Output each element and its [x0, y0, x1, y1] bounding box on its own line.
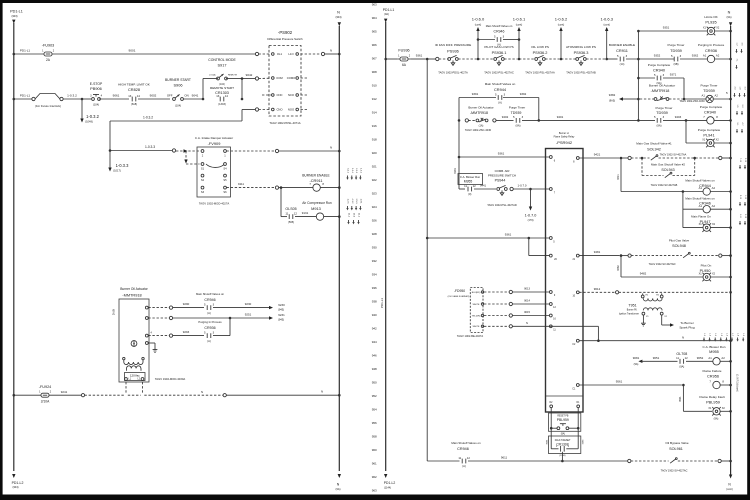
- svg-text:YEL(GR): YEL(GR): [472, 315, 481, 317]
- wire 9061: [99, 98, 129, 100]
- parallel block CR944 over ZSC/TD939: [458, 98, 460, 190]
- pressure switch PS944 comb air: [497, 188, 500, 191]
- svg-text:TD939: TD939: [670, 48, 682, 53]
- svg-text:Pilot Gas Valve: Pilot Gas Valve: [669, 239, 690, 243]
- rung 9361 to pins 5 and 20: [426, 237, 429, 240]
- svg-text:TAGV 1902-ZSC-4030: TAGV 1902-ZSC-4030: [465, 128, 492, 132]
- svg-text:9591: 9591: [679, 396, 682, 402]
- svg-text:(9A): (9A): [561, 432, 566, 435]
- svg-text:X1: X1: [699, 273, 703, 276]
- svg-text:FAULT RESET: FAULT RESET: [555, 439, 571, 442]
- svg-text:Flame Safety Relay: Flame Safety Relay: [554, 136, 576, 139]
- svg-text:14-2: 14-2: [358, 213, 360, 218]
- svg-text:5: 5: [654, 115, 656, 119]
- svg-text:(1-0-7) 16 (cont): (1-0-7) 16 (cont): [736, 374, 739, 391]
- svg-text:-FU903: -FU903: [42, 44, 55, 48]
- svg-text:Purge Timer: Purge Timer: [701, 84, 718, 88]
- wire PS902 CNO to node 1-0.3.2: [255, 108, 258, 111]
- svg-text:4-1.2: 4-1.2: [351, 199, 353, 205]
- svg-text:CR946: CR946: [494, 30, 505, 34]
- svg-text:1-5: 1-5: [736, 105, 738, 109]
- svg-text:-FD950: -FD950: [454, 289, 465, 293]
- svg-text:11: 11: [458, 456, 461, 460]
- svg-text:Main Shutoff Valves on: Main Shutoff Valves on: [485, 82, 516, 86]
- ground from MMTR918: [148, 342, 155, 344]
- svg-text:934: 934: [372, 273, 377, 277]
- node arrow 1-0.6.3: [605, 58, 608, 61]
- svg-text:1-0.3.3: 1-0.3.3: [145, 145, 155, 149]
- svg-text:11: 11: [285, 211, 288, 215]
- svg-text:A1: A1: [702, 94, 706, 98]
- svg-text:TAGV 1902-PSL-4027AC: TAGV 1902-PSL-4027AC: [484, 71, 514, 75]
- svg-text:946: 946: [372, 354, 377, 358]
- coil CR911 burner enable: [313, 184, 320, 191]
- C.A. intake damper actuator FV909: [197, 147, 231, 197]
- reset pushbutton PBL959 block: [549, 413, 581, 431]
- svg-text:3-16: 3-16: [744, 158, 746, 163]
- svg-text:9561: 9561: [616, 380, 623, 384]
- svg-text:TAGV 1902-SV-4027AA: TAGV 1902-SV-4027AA: [660, 153, 687, 156]
- differential pressure switch PS902: [269, 46, 301, 117]
- svg-text:1-0.3.2: 1-0.3.2: [143, 116, 153, 120]
- svg-text:REMOTE: REMOTE: [228, 75, 238, 77]
- svg-text:FU936: FU936: [398, 49, 409, 53]
- svg-text:3: 3: [503, 34, 505, 38]
- svg-text:9231: 9231: [278, 313, 285, 317]
- svg-text:TAGV 1902-BE-4027A: TAGV 1902-BE-4027A: [457, 334, 483, 338]
- svg-text:PL935: PL935: [705, 20, 716, 25]
- svg-text:1-0.6.2: 1-0.6.2: [555, 17, 568, 22]
- contact TD939: [657, 118, 661, 123]
- svg-text:14: 14: [137, 94, 141, 98]
- svg-text:1-0.6.3: 1-0.6.3: [600, 17, 613, 22]
- svg-text:944: 944: [372, 340, 377, 344]
- svg-text:D1: D1: [577, 402, 581, 404]
- svg-text:Burner Oil Actuator: Burner Oil Actuator: [468, 105, 493, 109]
- coil TD939 purge timer: [706, 95, 713, 102]
- svg-text:OIL LOW PS: OIL LOW PS: [531, 45, 549, 49]
- svg-text:X2: X2: [716, 139, 720, 142]
- contact CR828 high temp limit ok: [132, 97, 136, 102]
- svg-text:1-7: 1-7: [731, 333, 733, 337]
- svg-text:7-14: 7-14: [739, 158, 741, 163]
- svg-text:Main Shutoff Valves on: Main Shutoff Valves on: [685, 179, 715, 183]
- svg-text:-PSR942: -PSR942: [556, 140, 573, 145]
- svg-text:COM: COM: [276, 76, 283, 80]
- svg-text:PD1-L1: PD1-L1: [383, 8, 395, 12]
- svg-text:M955: M955: [464, 180, 473, 184]
- svg-text:C1: C1: [572, 387, 576, 390]
- svg-text:954: 954: [372, 408, 377, 412]
- svg-text:1-8: 1-8: [739, 87, 741, 91]
- svg-text:9482: 9482: [617, 265, 620, 271]
- svg-text:1-2: 1-2: [703, 333, 705, 337]
- svg-text:Purge Complete: Purge Complete: [648, 63, 671, 67]
- svg-text:9482: 9482: [640, 272, 647, 276]
- pressure switch PS936.1 pilot gas low: [494, 58, 497, 61]
- svg-text:1-8: 1-8: [737, 333, 739, 337]
- svg-text:918: 918: [372, 138, 377, 142]
- svg-text:PD1-L2: PD1-L2: [12, 481, 24, 485]
- wire 9131: [295, 216, 317, 218]
- svg-text:912: 912: [372, 97, 377, 101]
- svg-text:N: N: [526, 321, 528, 325]
- svg-text:11: 11: [464, 184, 467, 188]
- rung coil CR946 main shutoff valves on: [682, 192, 684, 228]
- svg-text:1-0.7.0: 1-0.7.0: [525, 214, 537, 218]
- svg-text:(9A): (9A): [516, 124, 521, 128]
- svg-text:9251: 9251: [245, 312, 252, 316]
- svg-text:2-4: 2-4: [734, 87, 736, 91]
- fuse FU936: [397, 58, 411, 60]
- svg-text:SOL961: SOL961: [669, 447, 683, 451]
- svg-text:Pilot On: Pilot On: [701, 263, 712, 267]
- svg-text:924: 924: [372, 205, 377, 209]
- svg-text:3: 3: [663, 73, 665, 77]
- svg-text:(179): (179): [528, 219, 534, 222]
- svg-text:8: 8: [573, 160, 575, 163]
- svg-text:(A): (A): [498, 101, 502, 105]
- svg-text:5-12: 5-12: [739, 195, 741, 200]
- lamp PL935 limits ok: [707, 27, 714, 34]
- svg-text:7: 7: [703, 115, 705, 119]
- svg-text:1-0.6.1: 1-0.6.1: [513, 17, 526, 22]
- svg-text:(cont): (cont): [558, 23, 565, 26]
- svg-text:(903): (903): [11, 14, 17, 18]
- svg-text:1: 1: [398, 54, 400, 57]
- svg-text:Main Gas Shutoff Valve #1: Main Gas Shutoff Valve #1: [636, 141, 672, 145]
- svg-text:1-6.2: 1-6.2: [359, 168, 361, 174]
- svg-text:OFF: OFF: [167, 94, 173, 98]
- pushbutton PB906 E-STOP: [92, 98, 95, 101]
- svg-text:Oil Bypass Valve: Oil Bypass Valve: [665, 441, 689, 445]
- svg-text:905: 905: [372, 30, 377, 34]
- burner oil actuator MMTR918: [119, 299, 149, 382]
- svg-text:920: 920: [372, 151, 377, 155]
- contact CR946: [462, 459, 466, 464]
- wire 9041: [184, 98, 204, 100]
- svg-text:Main Gas Shutoff Valve #2: Main Gas Shutoff Valve #2: [651, 162, 685, 166]
- svg-text:1-2.6: 1-2.6: [347, 199, 349, 205]
- svg-text:-CR911: -CR911: [309, 178, 322, 183]
- svg-text:M913: M913: [311, 206, 321, 211]
- svg-text:922: 922: [372, 178, 377, 182]
- svg-text:A1: A1: [708, 356, 712, 360]
- svg-text:TD939: TD939: [511, 111, 522, 115]
- svg-text:CR956: CR956: [707, 374, 719, 379]
- svg-text:12: 12: [553, 306, 556, 309]
- wire from PS902 L1O to N: [301, 53, 322, 55]
- svg-text:928: 928: [372, 232, 377, 236]
- coil M955: [713, 358, 720, 365]
- wire 9361 to PSR942 pin6: [458, 156, 461, 159]
- svg-text:2-5.3: 2-5.3: [355, 199, 357, 205]
- svg-text:(A): (A): [462, 464, 466, 468]
- svg-text:Flame Relay Fault: Flame Relay Fault: [699, 395, 724, 399]
- svg-text:CR946: CR946: [699, 202, 711, 206]
- svg-text:1-5: 1-5: [720, 333, 722, 337]
- wire 9293 contact CR936 purging in process: [148, 335, 169, 337]
- svg-text:9041: 9041: [192, 94, 199, 98]
- rung 9481 solenoid SOL948 pilot gas valve: [579, 255, 619, 257]
- svg-text:926: 926: [372, 219, 377, 223]
- svg-text:(1303): (1303): [218, 102, 226, 106]
- svg-text:1-9: 1-9: [742, 333, 744, 337]
- contact M955: [468, 187, 472, 192]
- svg-text:5: 5: [494, 34, 496, 38]
- svg-text:11: 11: [553, 329, 556, 332]
- node arrow 1-0.6.0: [477, 58, 480, 61]
- svg-text:TAGV 1902-PSL-4027AD: TAGV 1902-PSL-4027AD: [487, 203, 517, 207]
- svg-text:932: 932: [372, 259, 377, 263]
- svg-text:9421: 9421: [617, 174, 620, 180]
- svg-text:L1O: L1O: [288, 52, 293, 56]
- svg-text:9362: 9362: [692, 54, 699, 58]
- svg-text:(9B): (9B): [674, 62, 679, 66]
- svg-text:(9A): (9A): [336, 487, 341, 491]
- svg-text:9361: 9361: [416, 54, 423, 58]
- svg-text:(618): (618): [131, 102, 137, 106]
- svg-text:OLS05: OLS05: [285, 207, 296, 211]
- svg-text:PS936.1: PS936.1: [492, 50, 507, 55]
- svg-text:-MMTR918: -MMTR918: [470, 111, 488, 115]
- svg-text:PS936: PS936: [447, 48, 459, 53]
- svg-text:956: 956: [372, 421, 377, 425]
- future interlock jumper: [32, 97, 35, 100]
- svg-text:TD939: TD939: [703, 88, 715, 93]
- svg-text:X1: X1: [702, 139, 706, 142]
- svg-text:X1: X1: [646, 316, 649, 318]
- svg-text:9061: 9061: [113, 93, 120, 97]
- svg-text:N: N: [330, 145, 332, 149]
- rung lamp PL950 pilot on: [620, 256, 622, 277]
- svg-text:9481: 9481: [594, 250, 601, 254]
- pressure switch PS936.2 oil low: [535, 58, 538, 61]
- svg-text:(1144): (1144): [384, 486, 391, 489]
- rung 9612 ignition transformer T951: [579, 291, 615, 293]
- svg-text:-FV909: -FV909: [208, 141, 221, 146]
- svg-text:CR944: CR944: [494, 87, 507, 92]
- svg-text:9403: 9403: [675, 115, 682, 119]
- svg-text:2-2: 2-2: [741, 105, 743, 109]
- svg-text:9351: 9351: [663, 26, 670, 30]
- svg-text:(9A): (9A): [727, 15, 732, 19]
- svg-text:20: 20: [554, 258, 557, 261]
- svg-text:16: 16: [553, 318, 556, 321]
- svg-text:(A): (A): [207, 339, 211, 343]
- node arrow 1-0.6.1: [518, 58, 521, 61]
- svg-text:9015: 9015: [524, 310, 530, 314]
- coil CR940 purge complete: [707, 117, 714, 124]
- svg-text:(945): (945): [278, 318, 284, 322]
- svg-text:OL1: OL1: [277, 52, 283, 56]
- svg-text:Main Shutoff Valves on: Main Shutoff Valves on: [451, 441, 481, 445]
- rung 9421 solenoid SOL942 main gas shutoff valve 1: [579, 157, 619, 159]
- svg-text:S1: S1: [201, 166, 205, 170]
- svg-text:1-2: 1-2: [736, 43, 738, 47]
- wire FV909 pin1 to N: [227, 150, 276, 152]
- svg-text:(1017): (1017): [113, 169, 121, 173]
- wire 1-0.3.3 to FV909: [110, 150, 173, 152]
- svg-text:Air Compressor Run: Air Compressor Run: [302, 201, 332, 205]
- svg-text:1-1.4: 1-1.4: [351, 168, 353, 174]
- svg-text:958: 958: [372, 435, 377, 439]
- svg-text:(904): (904): [335, 15, 341, 19]
- svg-text:TAGV 1902-ZSO-4030: TAGV 1902-ZSO-4030: [679, 100, 705, 103]
- left N rail: [338, 26, 340, 471]
- rung 9611 CR946 and SOL961 oil bypass valve: [427, 460, 459, 462]
- motor symbol inside MMTR918: [131, 341, 137, 347]
- svg-text:5: 5: [204, 302, 206, 306]
- svg-text:(A): (A): [207, 311, 211, 315]
- svg-text:C.A. Blower Run: C.A. Blower Run: [703, 345, 726, 349]
- svg-text:CR911: CR911: [616, 48, 628, 53]
- svg-text:(cont): (cont): [726, 488, 733, 491]
- svg-text:N: N: [201, 390, 203, 394]
- svg-text:9290: 9290: [183, 302, 190, 306]
- svg-text:Limits OK: Limits OK: [704, 15, 718, 19]
- svg-text:962: 962: [372, 475, 377, 479]
- svg-text:5: 5: [671, 54, 673, 58]
- svg-text:A2: A2: [712, 204, 716, 208]
- svg-text:COMO: COMO: [287, 76, 296, 80]
- svg-text:(104): (104): [93, 103, 99, 107]
- selector S906 burner start: [173, 98, 176, 101]
- svg-text:8: 8: [722, 380, 724, 384]
- svg-text:BURNER ENABLE: BURNER ENABLE: [609, 43, 635, 47]
- arrow 1-0.7.0 down: [530, 189, 532, 207]
- svg-text:CR936: CR936: [204, 326, 215, 330]
- svg-text:A2: A2: [715, 94, 719, 98]
- svg-text:9013: 9013: [524, 287, 530, 291]
- svg-text:Main Shutoff Valves on: Main Shutoff Valves on: [196, 292, 224, 296]
- svg-text:963: 963: [372, 489, 377, 493]
- wire 9042 to PS902 COM: [241, 77, 244, 80]
- svg-text:SOL942: SOL942: [647, 147, 661, 151]
- svg-text:ATOMIZING LOW PS: ATOMIZING LOW PS: [566, 45, 596, 49]
- svg-text:6A: 6A: [402, 63, 407, 67]
- svg-text:1-0.3.2: 1-0.3.2: [86, 114, 100, 119]
- svg-text:5: 5: [617, 54, 619, 58]
- svg-text:ON: ON: [184, 94, 188, 98]
- line number column: [372, 3, 377, 493]
- limit switch MMTR918 ZSC row: [458, 119, 461, 122]
- svg-text:X2: X2: [664, 316, 667, 318]
- svg-text:9382: 9382: [609, 93, 616, 97]
- svg-text:12: 12: [473, 184, 477, 188]
- svg-text:3: 3: [213, 330, 215, 334]
- svg-text:N: N: [337, 11, 340, 15]
- limit switch MMTR918 ZSO: [654, 98, 657, 101]
- svg-text:9131: 9131: [302, 211, 309, 215]
- svg-text:COMB. AIR: COMB. AIR: [495, 169, 510, 173]
- pressure switch PS936 ID fan diff pressure: [448, 58, 451, 61]
- svg-text:7: 7: [554, 191, 556, 194]
- svg-text:(9A): (9A): [384, 13, 389, 16]
- svg-text:3: 3: [663, 115, 665, 119]
- svg-text:TAGV 1902-PSL-4027AB: TAGV 1902-PSL-4027AB: [566, 71, 596, 75]
- svg-text:TAGV 1902-PDSL-4027A: TAGV 1902-PDSL-4027A: [438, 71, 468, 75]
- svg-text:A2: A2: [712, 186, 716, 190]
- svg-text:8: 8: [322, 182, 324, 186]
- contact CR944 main shutoff valves on: [498, 95, 502, 100]
- svg-text:10-6: 10-6: [353, 213, 355, 218]
- svg-text:1-13: 1-13: [744, 195, 746, 200]
- svg-text:CR940: CR940: [704, 109, 716, 114]
- svg-text:A2: A2: [716, 54, 720, 58]
- svg-text:1-6: 1-6: [725, 333, 727, 337]
- svg-text:952: 952: [372, 394, 377, 398]
- svg-text:Purge Timer: Purge Timer: [656, 106, 673, 110]
- rung 9382 burner oil actuator ZSO and purge timer coil: [619, 97, 623, 100]
- svg-text:(9): (9): [468, 192, 471, 196]
- svg-text:12: 12: [294, 211, 298, 215]
- svg-text:3: 3: [504, 92, 506, 96]
- svg-text:PD1-L1: PD1-L1: [380, 298, 384, 309]
- svg-text:X2: X2: [722, 407, 726, 410]
- svg-text:916: 916: [372, 124, 377, 128]
- svg-text:9081: 9081: [633, 356, 640, 360]
- svg-text:903: 903: [372, 3, 377, 7]
- svg-text:3: 3: [568, 446, 570, 448]
- svg-text:9230: 9230: [278, 303, 285, 307]
- svg-text:11: 11: [676, 356, 679, 360]
- svg-text:9692: 9692: [581, 440, 583, 446]
- svg-text:9652: 9652: [697, 356, 704, 360]
- svg-text:9401: 9401: [557, 115, 564, 119]
- contact CR940 purge complete branch: [637, 77, 640, 80]
- svg-text:910: 910: [372, 84, 377, 88]
- contact CR911 burner enable: [620, 57, 624, 62]
- svg-text:PD1-L2: PD1-L2: [384, 481, 396, 485]
- svg-text:4: 4: [101, 93, 103, 97]
- svg-text:CR940: CR940: [653, 68, 665, 73]
- svg-text:1-9.1: 1-9.1: [359, 199, 361, 205]
- selector S917 control mode: [217, 77, 220, 80]
- svg-text:HIGH TEMP. LIMIT OK: HIGH TEMP. LIMIT OK: [118, 83, 151, 87]
- svg-text:6: 6: [554, 159, 556, 162]
- svg-text:REMOTE START: REMOTE START: [210, 86, 234, 90]
- svg-text:1: 1: [224, 153, 226, 157]
- contact TD939 purge timer: [674, 57, 678, 62]
- svg-text:PD1-L1: PD1-L1: [10, 10, 23, 14]
- svg-text:CONTROL MODE: CONTROL MODE: [208, 58, 236, 62]
- svg-text:907: 907: [372, 57, 377, 61]
- svg-text:930: 930: [372, 246, 377, 250]
- svg-text:X2: X2: [712, 273, 716, 276]
- neutral jog from PSR942 to N rail: [512, 325, 598, 327]
- svg-text:(9A): (9A): [657, 124, 662, 128]
- svg-text:C.A. Blower Run: C.A. Blower Run: [460, 175, 481, 179]
- right rail PD1-L1: [385, 22, 387, 471]
- node arrow 1-0.6.2: [560, 58, 563, 61]
- svg-text:950: 950: [372, 381, 377, 385]
- svg-text:T951: T951: [628, 304, 636, 308]
- svg-text:BURNER START: BURNER START: [165, 78, 191, 82]
- svg-text:M955: M955: [709, 349, 719, 354]
- transformer T951: [641, 295, 644, 298]
- svg-text:3: 3: [626, 54, 628, 58]
- svg-text:TAGV 1902-SV-4027AD: TAGV 1902-SV-4027AD: [649, 263, 676, 266]
- contact CR1303 remote start: [220, 97, 224, 102]
- svg-text:2/10A: 2/10A: [41, 399, 50, 403]
- svg-text:7-1: 7-1: [736, 59, 738, 63]
- svg-text:5: 5: [726, 91, 728, 95]
- svg-text:C2: C2: [572, 343, 576, 346]
- svg-text:961: 961: [372, 462, 377, 466]
- svg-text:(UV FLAME SCANNER): (UV FLAME SCANNER): [448, 295, 470, 298]
- svg-text:1-0.7.0: 1-0.7.0: [518, 184, 527, 188]
